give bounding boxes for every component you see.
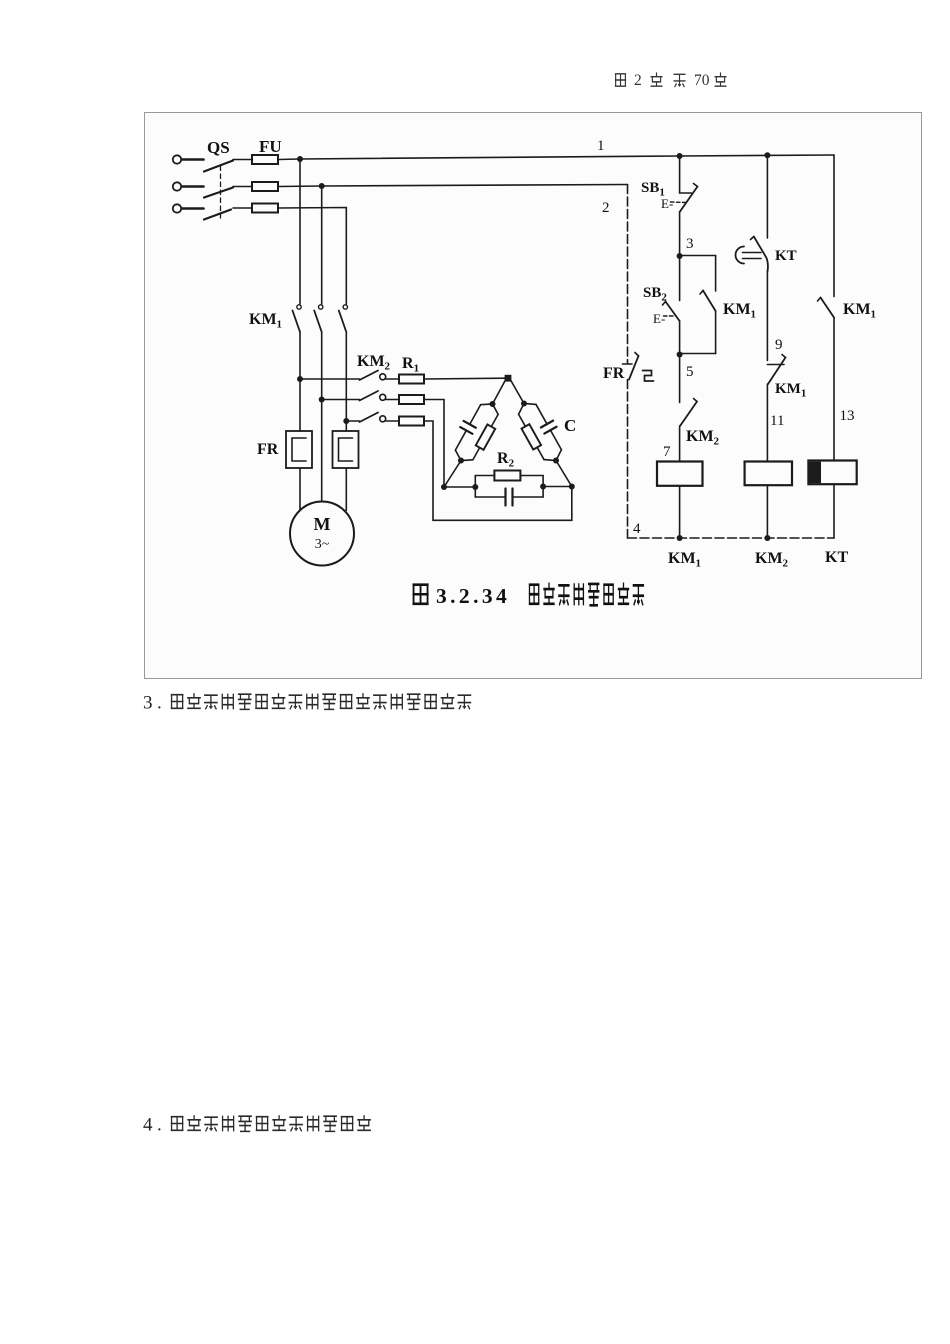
svg-text:11: 11 (770, 413, 784, 429)
svg-text:5: 5 (686, 364, 694, 380)
svg-text:3~: 3~ (315, 537, 330, 552)
svg-text:.: . (157, 1115, 162, 1136)
svg-text:E-: E- (661, 196, 673, 211)
svg-text:KT: KT (825, 549, 848, 566)
svg-text:FR: FR (603, 365, 625, 382)
svg-text:QS: QS (207, 138, 230, 157)
svg-text:KT: KT (775, 248, 797, 264)
svg-text:3: 3 (143, 693, 153, 714)
svg-text:13: 13 (840, 408, 855, 424)
svg-text:C: C (564, 416, 576, 435)
svg-text:4: 4 (633, 521, 641, 537)
svg-text:FU: FU (259, 137, 282, 156)
svg-text:2: 2 (602, 200, 610, 216)
svg-text:7: 7 (663, 444, 671, 460)
svg-text:1: 1 (597, 138, 605, 154)
svg-text:9: 9 (775, 337, 783, 353)
svg-text:M: M (314, 514, 331, 534)
svg-text:E-: E- (653, 311, 665, 326)
svg-text:.: . (157, 693, 162, 714)
svg-text:4: 4 (143, 1115, 153, 1136)
svg-text:3: 3 (686, 236, 694, 252)
svg-text:FR: FR (257, 441, 279, 458)
svg-text:3.2.34: 3.2.34 (436, 584, 510, 608)
